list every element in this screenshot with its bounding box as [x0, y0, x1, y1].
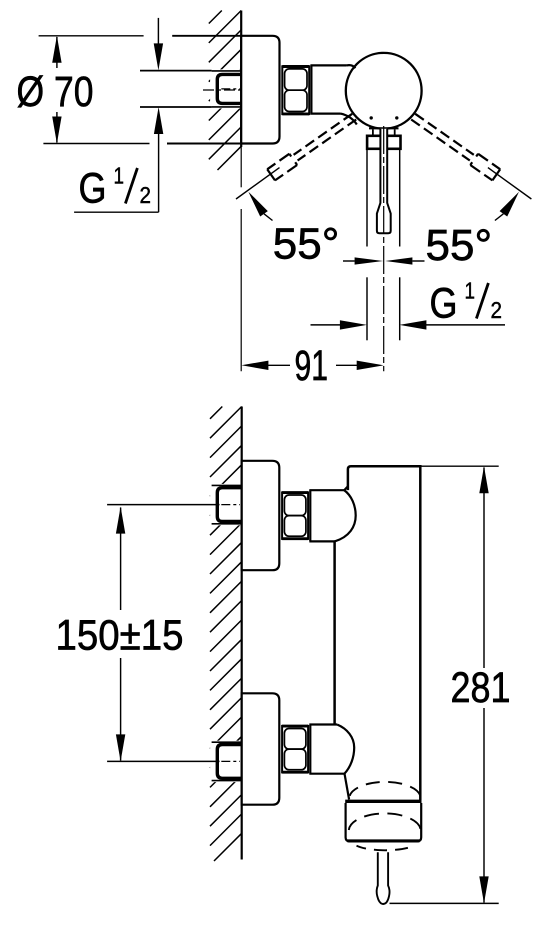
- upper union nut (front view): [282, 491, 308, 540]
- svg-text:55°: 55°: [426, 221, 493, 270]
- hidden bore arcs (dashed): [350, 782, 421, 796]
- 55 deg arc arrow right: [500, 192, 519, 217]
- svg-text:91: 91: [295, 343, 329, 390]
- svg-text:281: 281: [451, 665, 511, 712]
- upper inlet elbow: [309, 490, 355, 541]
- G 1/2 pipe in wall (top view fitting): [210, 69, 241, 108]
- valve body (top view): [310, 65, 346, 113]
- label G 1/2 (left): [79, 163, 152, 213]
- cartridge screws (two dots): [370, 116, 373, 119]
- label G 1/2 (right): [430, 278, 503, 328]
- svg-text:2: 2: [491, 297, 503, 323]
- lower inlet elbow: [309, 725, 354, 774]
- svg-text:150±15: 150±15: [56, 613, 184, 660]
- mixer body (front view): [334, 466, 421, 800]
- lever axis centerline: [383, 126, 385, 371]
- wall surface edge (top view): [240, 11, 242, 148]
- wall surface edge (front view): [241, 407, 243, 860]
- dimension 150±15: [107, 505, 219, 762]
- shower outlet extension lines (top view): [366, 150, 368, 247]
- svg-text:G: G: [79, 165, 107, 212]
- svg-text:55°: 55°: [273, 220, 340, 269]
- dimension Ø70: [39, 36, 240, 144]
- shower outlet cup: [345, 800, 421, 803]
- lever width converging arrows: [343, 260, 355, 262]
- svg-text:G: G: [430, 280, 458, 327]
- 55 deg angle leg left: [236, 168, 280, 199]
- lever fixing block: [367, 136, 400, 149]
- wall hatching (top view): [209, 11, 241, 171]
- upper S-union fitting in wall: [210, 484, 241, 525]
- G 1/2 outlet dimension line (right): [311, 324, 341, 326]
- lever collar under knob: [369, 127, 399, 129]
- svg-text:1: 1: [465, 278, 476, 304]
- dimension 91: [268, 364, 290, 366]
- union nut (top view): [282, 65, 309, 115]
- hose connection nipple: [377, 852, 390, 904]
- lower S-union fitting in wall: [210, 741, 241, 782]
- handle knob circle (top view): [346, 53, 422, 129]
- svg-text:Ø 70: Ø 70: [17, 69, 94, 116]
- lever shaft (rest position): [377, 129, 391, 233]
- G 1/2 thread arrows (left): [157, 18, 159, 45]
- upper escutcheon flange (front view): [242, 461, 280, 570]
- wall extension line for 91 (top view): [240, 147, 242, 187]
- wall hatching (front view): [210, 407, 242, 862]
- lower union nut (front view): [282, 725, 308, 774]
- 55 deg arc arrow left: [248, 192, 267, 217]
- body-to-knob fillets: [347, 65, 356, 68]
- lower escutcheon flange (front view): [242, 693, 280, 804]
- pipe centerline (top view): [203, 89, 241, 91]
- escutcheon flange (top view): [241, 36, 279, 144]
- lever swung right 55 deg (dashed): [415, 114, 474, 155]
- 55 deg angle leg right: [488, 168, 532, 199]
- lever swung left 55 deg (dashed): [298, 120, 357, 161]
- supply pipe outline (top view): [140, 70, 212, 72]
- svg-text:1: 1: [114, 163, 125, 189]
- dimension 281: [390, 466, 499, 903]
- svg-text:2: 2: [140, 182, 152, 208]
